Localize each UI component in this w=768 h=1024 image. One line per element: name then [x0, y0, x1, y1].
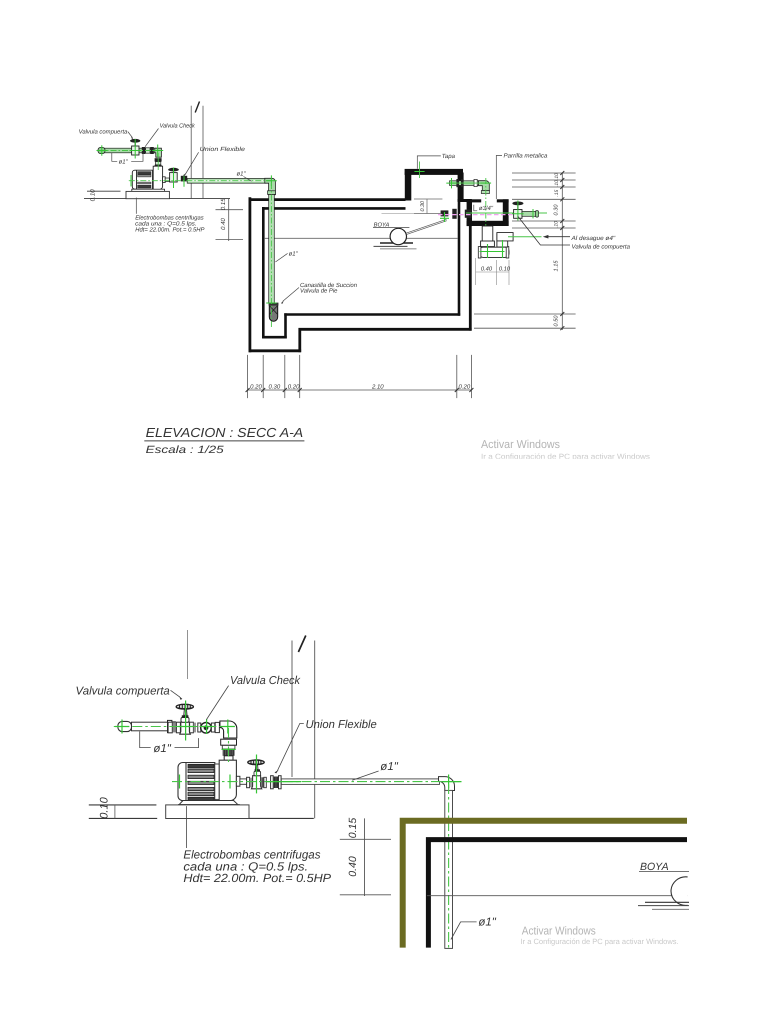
valve axis line: [187, 630, 189, 679]
trap bottom body: [479, 247, 509, 257]
green centerline through suction drop: [157, 153, 159, 170]
dim 0.40 / 0.10 under trap: [475, 258, 477, 285]
ground line left of tank: [84, 198, 230, 200]
green inlet centerline vertical: [485, 178, 487, 237]
Valvula de compuerta leader: [518, 216, 570, 245]
elbow lower: [220, 721, 237, 738]
motor-casing neck: [215, 764, 220, 799]
float ball lower (clipped): [671, 877, 688, 906]
water line: [265, 237, 458, 239]
svg-text:Valvula compuerta: Valvula compuerta: [79, 129, 128, 136]
svg-text:0.30: 0.30: [269, 384, 281, 391]
tank sump bottom inner: [262, 336, 287, 339]
check valve right rings: [211, 723, 214, 732]
green centerline horizontal lower suction: [114, 726, 232, 728]
axis line A: [190, 106, 192, 199]
discharge stub lower: [236, 776, 240, 786]
trap drop pipe below box: [482, 226, 493, 243]
svg-text:0.10: 0.10: [90, 189, 97, 202]
pipe end cap lower: [118, 721, 132, 731]
svg-text:Valvula Check: Valvula Check: [230, 675, 301, 687]
svg-text:Activar Windows: Activar Windows: [522, 926, 596, 938]
green cross at elbow: [266, 175, 277, 186]
float arm: [406, 219, 447, 234]
check valve CV1: [142, 147, 146, 154]
gate valve left rings: [168, 722, 172, 733]
long discharge pipe lower: [281, 779, 439, 785]
green pump axis centerline: [129, 180, 271, 182]
green cross at check valve: [152, 145, 163, 157]
BOYA underline lower: [639, 871, 689, 873]
parrilla box top left segment: [467, 199, 482, 202]
Parrilla leader: [496, 156, 502, 200]
motor ribs lower: [188, 764, 214, 800]
union flexible on suction drop: [155, 158, 162, 161]
tank main floor outer: [299, 328, 472, 331]
svg-text:0.20: 0.20: [288, 384, 300, 391]
svg-text:ø3/4": ø3/4": [479, 205, 494, 212]
green crosses pump axis: [179, 775, 181, 789]
discharge valve flanges: [247, 777, 250, 787]
green cross left of wall: [446, 178, 456, 188]
leader compuerta lower: [171, 690, 180, 697]
discharge pipe to tank: [187, 178, 266, 183]
inlet pipe into access (green): [450, 181, 479, 186]
svg-text:Valvula de Pie: Valvula de Pie: [300, 287, 338, 294]
drain gate valve V3 handwheel: [512, 202, 523, 206]
discharge elbow at tank: [265, 178, 276, 194]
bottom dimension witness lines: [248, 355, 472, 398]
suction elbow down: [155, 148, 162, 157]
water hatch under float: [380, 242, 413, 244]
green cross at float valve: [440, 212, 449, 222]
gate valve right rings: [190, 722, 194, 733]
access lid (Tapa): [405, 169, 463, 175]
dim 0.15/0.40 lower: [364, 818, 366, 896]
union flexible U1: [181, 176, 187, 182]
green drop centerline lower: [448, 784, 450, 949]
gate valve V2 handwheel: [168, 168, 179, 172]
foot valve (canastilla): [269, 304, 277, 322]
leader from pump to electrobombas text: [135, 198, 137, 214]
drain gate valve V3 body: [514, 210, 522, 219]
valve stem lower: [184, 709, 187, 715]
BOYA underline leader: [373, 227, 409, 229]
parrilla box left wall: [467, 199, 472, 226]
green crosses suction lower: [115, 720, 129, 734]
green cross at elbow lower: [442, 775, 462, 789]
leader to foot valve: [283, 288, 300, 302]
inlet wall flange: [456, 179, 459, 187]
svg-text:1.15: 1.15: [554, 260, 560, 272]
leader o1 drop lower: [451, 922, 477, 940]
water line lower: [427, 895, 688, 897]
pump motor ribs: [138, 172, 151, 188]
green centerline suction header: [99, 150, 160, 152]
svg-text:0.50: 0.50: [554, 315, 560, 327]
gate valve V1 handwheel: [130, 139, 140, 143]
pedestal top line: [89, 804, 157, 806]
svg-text:Hdt= 22.00m. Pot.= 0.5HP: Hdt= 22.00m. Pot.= 0.5HP: [135, 226, 204, 233]
access centerline green: [419, 162, 421, 179]
pedestal top level line: [87, 190, 121, 192]
axis tick lower: [298, 636, 305, 653]
svg-text:ø1": ø1": [237, 171, 247, 178]
pump volute casing: [153, 166, 162, 189]
tank sump step inner: [284, 313, 287, 338]
pump pedestal: [126, 191, 169, 198]
svg-text:Union Flexible: Union Flexible: [306, 719, 377, 731]
green cross at valve V2: [173, 168, 175, 189]
suction header pipe (green): [104, 148, 156, 153]
svg-text:ELEVACION : SECC A-A: ELEVACION : SECC A-A: [146, 425, 304, 440]
tank sump bottom outer: [249, 349, 302, 352]
leader check lower: [207, 686, 229, 720]
axis tick mark: [195, 102, 199, 113]
green cross at elbow inlet: [481, 182, 492, 184]
svg-text:Valvula Check: Valvula Check: [160, 123, 196, 130]
pedestal lower: [166, 805, 249, 819]
leader o1 discharge: [244, 177, 252, 182]
right dimension ticks: [560, 171, 564, 330]
pump feet bar: [132, 189, 165, 191]
drop elbow coupling: [268, 191, 276, 195]
gate valve V1 body: [132, 146, 139, 155]
inlet pipe coupling: [474, 179, 477, 186]
svg-text:0.40: 0.40: [220, 218, 227, 230]
svg-text:Activar Windows: Activar Windows: [481, 439, 560, 451]
wall pass fitting: [452, 209, 456, 219]
float ball BOYA: [390, 228, 406, 244]
title underline: [144, 440, 304, 442]
elbow at tank lower: [439, 777, 455, 791]
access dim vertical: [426, 199, 428, 214]
green cross at drain pipe end: [532, 209, 534, 218]
water hatch lower: [645, 901, 689, 903]
right dimension column witness lines: [474, 173, 576, 328]
svg-text:Al desague ø4": Al desague ø4": [570, 235, 616, 242]
drop pipe in tank: [269, 195, 275, 304]
axis line A lower: [291, 641, 293, 778]
svg-text:2.10: 2.10: [371, 384, 384, 391]
magenta hidden supply line: [438, 214, 520, 216]
tank left wall inner: [262, 207, 265, 338]
svg-text:0.30: 0.30: [420, 201, 426, 212]
right dimension vertical line: [561, 173, 563, 331]
green drain continuation: [508, 236, 542, 238]
svg-text:BOYA: BOYA: [640, 861, 669, 873]
tank sump step outer: [298, 328, 301, 352]
svg-text:.15: .15: [554, 190, 560, 197]
parrilla box bottom: [467, 221, 509, 226]
tank right wall inner: [458, 200, 461, 316]
gate valve V1 stem: [134, 142, 136, 147]
leader to union U1: [185, 152, 199, 175]
svg-text:0.40: 0.40: [481, 265, 493, 272]
dim line small vertical: [114, 805, 116, 819]
float valve: [441, 210, 449, 216]
svg-text:Hdt= 22.00m. Pot.= 0.5HP: Hdt= 22.00m. Pot.= 0.5HP: [183, 871, 331, 885]
gate valve body lower: [180, 722, 191, 734]
drain pipe right of valve: [522, 211, 537, 216]
wall jog between access and box: [458, 199, 472, 202]
leader to check valve: [145, 129, 159, 147]
suction pipe end cap: [98, 147, 105, 153]
flange pair before valve: [168, 720, 172, 732]
tank main floor inner: [284, 313, 460, 316]
pump feet lower: [179, 801, 238, 805]
green vertical drop to pump: [228, 728, 230, 762]
gate valve V2 stem: [173, 170, 175, 173]
leader union lower: [278, 724, 304, 771]
green cross at pipe cap: [97, 145, 108, 156]
drop pipe lower: [445, 790, 453, 948]
axis line B lower: [314, 641, 316, 819]
svg-text:Valvula compuerta: Valvula compuerta: [76, 686, 170, 698]
check valve rings lower: [198, 723, 201, 732]
discharge valve body lower: [251, 776, 261, 789]
green inlet centerline horizontal: [450, 182, 492, 184]
svg-text:Valvula de compuerta: Valvula de compuerta: [572, 243, 631, 250]
svg-text:.10: .10: [554, 221, 560, 228]
svg-text:0.10: 0.10: [499, 265, 511, 272]
bottom dimension ticks: [246, 388, 474, 392]
o1 bracket lower: [140, 732, 199, 748]
access left wall: [405, 173, 412, 201]
svg-text:0.30: 0.30: [554, 204, 560, 216]
handwheel lower: [176, 704, 193, 709]
access dim ticks: [414, 198, 442, 200]
green cross at trap left: [480, 240, 505, 258]
svg-text:0.15: 0.15: [220, 198, 227, 210]
trap drop coupling: [481, 241, 495, 247]
wall dim line (0.15 / 0.40): [228, 199, 230, 241]
trap top elbow to right: [497, 233, 513, 241]
green cross on lid: [414, 171, 424, 173]
ground line right of pedestal: [249, 817, 314, 819]
right dim labels rotated: [554, 173, 560, 327]
green cross at foot valve: [266, 302, 276, 304]
tank left wall outer: [248, 197, 251, 352]
svg-text:.10: .10: [554, 173, 560, 180]
check valve ball: [201, 723, 212, 734]
leader o1 drop: [275, 253, 287, 262]
watermark clip mask: [479, 459, 655, 465]
tank right wall outer / box left wall: [469, 199, 472, 331]
gate valve V2 body: [170, 173, 178, 182]
svg-text:Union Flexible: Union Flexible: [200, 146, 246, 153]
tank top slab outer: [249, 198, 406, 201]
svg-text:Escala : 1/25: Escala : 1/25: [146, 444, 224, 456]
green supply centerline in box: [466, 212, 547, 214]
union flexible block: [222, 745, 235, 749]
olive tank outer wall: [403, 821, 687, 948]
axis line B: [202, 106, 204, 199]
svg-text:0.40: 0.40: [347, 856, 359, 877]
pump motor lower: [178, 763, 215, 801]
discharge valve bonnet: [254, 771, 261, 775]
svg-text:ø1": ø1": [119, 158, 129, 165]
o3/4 leader tick: [474, 205, 477, 211]
green cross at valve V1: [130, 139, 141, 159]
union flexible discharge: [271, 776, 274, 789]
svg-text:0.20: 0.20: [250, 384, 262, 391]
leader to valve V1: [128, 132, 133, 138]
ground line lower left: [89, 817, 157, 819]
svg-text:ø1": ø1": [289, 250, 299, 257]
discharge stub: [163, 177, 166, 183]
pump volute lower: [219, 760, 236, 801]
pump motor: [132, 170, 152, 189]
green drop centerline: [270, 183, 272, 328]
svg-text:ø1": ø1": [380, 761, 398, 773]
parrilla box right wall: [503, 199, 509, 226]
black tank inner wall: [428, 840, 687, 948]
green pump axis lower: [172, 781, 462, 783]
access right wall: [458, 173, 464, 202]
svg-text:0.15: 0.15: [347, 818, 359, 839]
green cross at union flexible: [222, 748, 236, 750]
svg-text:Ir a Configuración de PC para: Ir a Configuración de PC para activar Wi…: [521, 937, 679, 946]
discharge handwheel: [248, 760, 264, 765]
flange below elbow: [221, 739, 237, 745]
svg-text:.10: .10: [554, 180, 560, 187]
leader o1 long pipe: [352, 771, 378, 780]
svg-text:Parrilla metalica: Parrilla metalica: [504, 152, 549, 159]
svg-text:0.10: 0.10: [99, 796, 111, 818]
svg-text:0.20: 0.20: [459, 384, 471, 391]
svg-text:ø1": ø1": [153, 743, 171, 755]
green cross at union: [183, 175, 185, 187]
bottom dimension line: [248, 389, 472, 391]
label o1" bracket (suction): [112, 153, 143, 162]
green cross at drain valve: [512, 201, 524, 221]
leader pump to text lower: [186, 806, 188, 848]
suction header pipe lower: [132, 722, 168, 731]
tank top slab inner: [262, 207, 405, 210]
svg-text:Tapa: Tapa: [442, 153, 456, 160]
trap right riser: [497, 234, 508, 247]
parrilla box top right segment: [497, 199, 509, 202]
gate valve bonnet: [181, 718, 189, 723]
pipe to pump top: [224, 756, 233, 761]
green cross at motor: [130, 175, 132, 186]
discharge valve stem: [255, 765, 258, 769]
Tapa leader: [417, 156, 441, 169]
inlet elbow flange: [481, 191, 489, 194]
Al desague leader + arrow: [548, 236, 570, 238]
inlet elbow down: [479, 181, 490, 191]
svg-text:ø1": ø1": [478, 917, 496, 929]
